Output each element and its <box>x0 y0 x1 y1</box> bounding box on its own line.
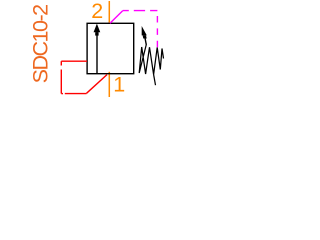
spring arrow tail <box>145 38 146 45</box>
red net horizontal upper segment <box>61 60 87 62</box>
red net vertical segment (dashed gap) <box>60 61 62 65</box>
svg-text:SDC10-2: SDC10-2 <box>29 4 53 84</box>
red net bottom horizontal segment <box>61 93 63 95</box>
red net vertical segment lower <box>60 70 62 94</box>
svg-text:1: 1 <box>113 72 125 96</box>
pilot line vertical dashed <box>156 11 158 48</box>
pilot line diagonal (magenta) <box>110 11 123 24</box>
port 2 line <box>108 1 110 23</box>
port 1 line <box>108 72 110 97</box>
spring zigzag <box>139 45 163 75</box>
svg-text:2: 2 <box>91 0 103 23</box>
spring tail <box>154 75 156 86</box>
check flow arrow collar <box>95 32 98 35</box>
pilot line horizontal dashed <box>123 10 158 12</box>
check flow arrowhead <box>94 24 101 33</box>
spring arrow head <box>142 26 147 35</box>
check flow arrow stem <box>96 30 98 73</box>
valve envelope box <box>87 23 134 73</box>
spring arrow collar <box>143 35 147 38</box>
red net diagonal segment <box>87 75 108 94</box>
